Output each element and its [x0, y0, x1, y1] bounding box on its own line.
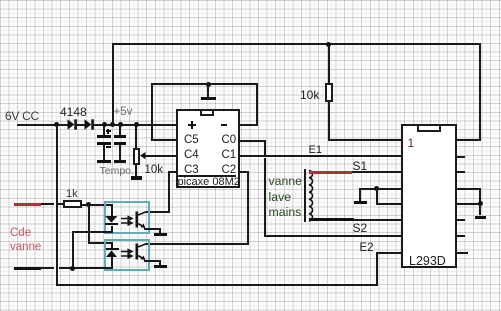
ground bar opto1 — [154, 233, 167, 236]
capacitor C-tempo plate1 — [97, 135, 110, 138]
phototransistor Q1 — [135, 210, 147, 229]
pin label minus — [221, 124, 227, 126]
ground bar picaxe — [201, 97, 217, 100]
node dot black net — [70, 266, 75, 271]
label 1k — [66, 188, 78, 200]
opto2 light arrows — [121, 250, 133, 258]
resistor 10k body — [325, 83, 333, 102]
pin label C5 — [184, 134, 199, 146]
label Cde — [10, 227, 31, 239]
LED2 stem top — [111, 242, 113, 248]
pin stub right row2 — [457, 156, 465, 158]
node dot after 1k — [86, 202, 91, 207]
wire C2 drop — [247, 171, 249, 244]
wire C0 drop upper — [264, 140, 266, 155]
LED2 triangle — [106, 250, 118, 257]
LED1 stem bottom — [111, 226, 113, 233]
label E1 — [309, 144, 322, 156]
wire C3 riser — [168, 171, 170, 213]
wire S1 red — [309, 171, 352, 174]
pin label C2 — [222, 164, 237, 176]
wire gnd cluster pin4 — [359, 188, 400, 190]
ground bar cap1 — [97, 160, 111, 164]
wire red to 1k left segment — [41, 203, 54, 205]
wire black net horizontal right — [59, 267, 113, 269]
wire between diodes — [77, 124, 86, 126]
wire LED1 return left — [72, 231, 113, 233]
LED2 stem bottom — [111, 257, 113, 268]
wire E2 riser — [376, 252, 378, 285]
label 10k top — [300, 88, 319, 102]
optocoupler OC1 box — [104, 201, 150, 235]
capacitor C2 stem bottom — [119, 145, 121, 160]
label picaxe 08M2 — [178, 176, 240, 188]
node dot cap1 — [102, 122, 107, 127]
wire cluster drop to pin5 — [376, 188, 378, 204]
label vanne red — [10, 241, 41, 253]
pin label C1 — [222, 149, 237, 161]
label pin 1 — [408, 136, 415, 150]
wire C0 drop lower — [264, 158, 266, 237]
optocoupler OC2 box — [104, 239, 150, 272]
inductor L1 coil — [308, 170, 316, 221]
wire 1k to LED1 — [82, 204, 113, 206]
capacitor C-tempo stem bottom — [103, 145, 105, 160]
capacitor C-tempo polarized stem top — [103, 125, 105, 136]
IC U1 notch — [200, 111, 214, 116]
wire C3 stub — [168, 171, 179, 173]
ground stem right — [479, 203, 481, 216]
ground bar right — [475, 216, 487, 219]
IC U1 picaxe 08M2 box — [176, 109, 240, 189]
wire Cde vanne red terminal — [14, 203, 41, 206]
wire wiper to C4 — [145, 155, 177, 157]
capacitor C2 stem top — [119, 125, 121, 136]
label 10k pot — [145, 164, 164, 176]
inductor core bar — [304, 169, 306, 222]
resistor R 1k body — [63, 200, 82, 208]
node dot pot — [134, 122, 139, 127]
potentiometer 10k stem top — [135, 125, 137, 149]
wire top rail left riser — [112, 43, 114, 124]
wire right pin1 to top rail — [457, 139, 482, 141]
capacitor C-tempo minus sign — [106, 146, 111, 148]
node dot gnd cluster — [374, 186, 379, 191]
wire S1 to L293D pin3 — [352, 171, 401, 173]
wire right pin4 — [457, 188, 482, 190]
wire 6V CC input — [17, 124, 69, 126]
resistor 10k stem lower — [328, 102, 330, 140]
potentiometer wiper arrow — [140, 152, 146, 160]
LED1 stem top — [111, 204, 113, 218]
node dot gnd picaxe — [206, 82, 211, 87]
wire vertical 6VCC to bottom rail — [56, 124, 58, 285]
IC U1 divider line — [178, 175, 236, 177]
label 4148 — [60, 105, 87, 119]
ground bar cluster — [354, 201, 367, 204]
wire top rail right riser — [479, 43, 481, 140]
IC U2 L293D box — [401, 124, 457, 267]
wire minus pin stub — [238, 124, 258, 126]
capacitor C2 plate2 — [114, 142, 126, 145]
opto1 light arrows — [121, 217, 133, 225]
wire top rail — [112, 43, 482, 45]
label +5v — [114, 106, 133, 118]
pin stub right row6 — [457, 219, 465, 221]
pin label plus — [188, 124, 196, 126]
diode D2 4148 — [84, 119, 96, 130]
pin label C3 — [184, 164, 199, 176]
LED1 triangle — [105, 216, 118, 223]
ground stem cluster left — [359, 188, 361, 201]
IC U2 notch — [417, 126, 441, 132]
wire right pin5 — [457, 203, 482, 205]
node dot 10k top rail — [326, 42, 331, 47]
label E2 — [360, 242, 374, 254]
label S1 — [353, 159, 368, 173]
ground bar opto2 — [154, 265, 167, 268]
phototransistor Q2 — [135, 242, 147, 261]
node dot cap2 — [118, 122, 123, 127]
ground bar pot — [131, 176, 143, 179]
wire C2 to opto2 collector — [146, 243, 248, 245]
wire C0 stub — [238, 140, 266, 142]
wire drop to LED2 feed — [88, 204, 90, 243]
wire 10k to L293D pin1 — [328, 139, 401, 141]
diode D1 4148 — [67, 119, 79, 130]
wire after diodes to +5v node — [93, 124, 177, 126]
pin label C4 — [184, 149, 199, 161]
pin stub right row7 — [457, 235, 465, 237]
wire C5 stub — [151, 139, 178, 141]
node junction 6VCC — [54, 122, 59, 127]
label L293D — [409, 254, 446, 268]
wire right pin4 drop — [479, 188, 481, 204]
potentiometer 10k stem bottom — [135, 165, 137, 176]
label Tempo. — [100, 165, 134, 177]
wire loop right side — [256, 83, 258, 125]
potentiometer 10k body — [133, 148, 141, 165]
wire loop left side — [151, 83, 153, 141]
wire C0 to L293D pin7 — [264, 235, 403, 237]
wire cluster to pin5 — [376, 203, 401, 205]
wire black net stub left — [41, 267, 54, 269]
ground stem picaxe — [207, 84, 209, 96]
wire emitter1 to ground — [144, 228, 160, 230]
resistor 10k stem upper — [328, 44, 330, 83]
capacitor C2 plate1 — [114, 135, 126, 138]
capacitor C-tempo plate2 — [97, 142, 110, 145]
wire E2 stub pin8 — [376, 252, 401, 254]
ground bar cap2 — [114, 160, 126, 164]
pin label C0 — [222, 134, 237, 146]
wire C2 stub — [238, 171, 248, 173]
label vanne lave mains — [269, 174, 303, 220]
wire LED2 feed horizontal — [88, 242, 113, 244]
LED1 cathode bar — [105, 223, 117, 225]
wire E1 C1 to L293D pin2 — [238, 155, 403, 157]
capacitor C-tempo plus sign — [106, 130, 111, 131]
wire opto1 collector link — [146, 211, 170, 213]
wire emitter2 to ground — [144, 260, 161, 262]
wire loop top — [151, 83, 259, 85]
node 6V CC label — [5, 109, 39, 123]
wire S2 to L293D pin6 — [354, 219, 401, 221]
node dot right gnd — [478, 201, 483, 206]
wire red to 1k right segment — [58, 203, 63, 205]
wire S2 black — [309, 218, 354, 221]
wire Cde vanne black terminal — [14, 267, 41, 270]
node dot top box — [110, 122, 115, 127]
wire LED1 return drop — [72, 231, 74, 270]
pin stub right row3 — [457, 171, 465, 173]
pin stub right row8 — [457, 252, 469, 254]
label S2 — [353, 221, 368, 235]
wire E2 bottom rail — [56, 284, 378, 286]
LED2 cathode bar — [106, 248, 119, 250]
